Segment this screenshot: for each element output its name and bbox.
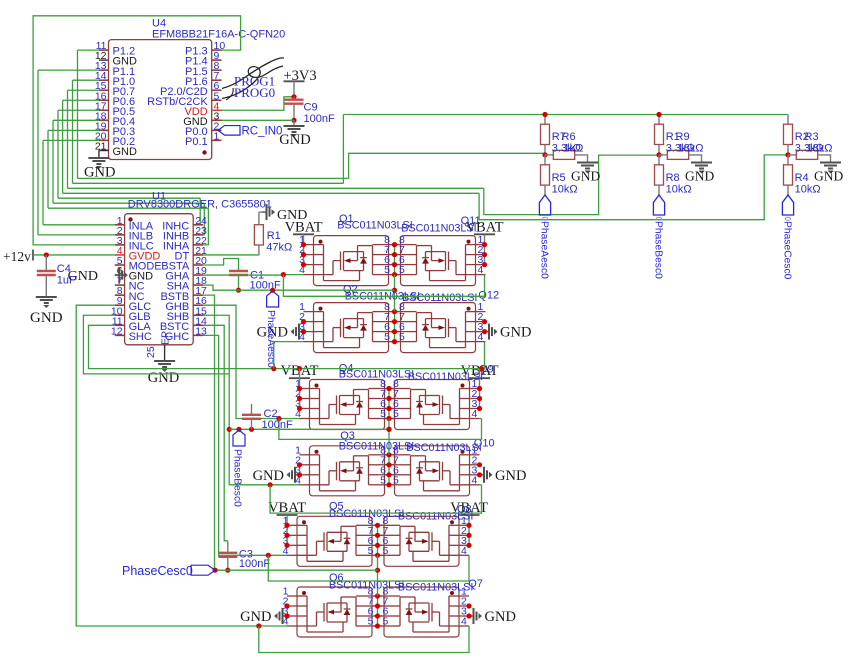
svg-text:10kΩ: 10kΩ [552,183,578,195]
svg-text:5: 5 [399,264,405,276]
svg-text:GND: GND [495,468,526,484]
svg-text:5: 5 [380,408,386,420]
svg-text:5: 5 [383,616,389,628]
svg-text:4: 4 [461,616,467,628]
svg-text:R9: R9 [676,131,690,143]
svg-text:P0.1: P0.1 [185,136,208,148]
svg-text:5: 5 [368,545,374,557]
svg-text:BSC011N03LSI: BSC011N03LSI [329,508,404,520]
svg-text:EP: EP [160,331,172,345]
svg-text:R4: R4 [795,172,809,184]
svg-text:5: 5 [399,331,405,343]
svg-text:GND: GND [279,132,310,148]
svg-text:12: 12 [111,325,123,337]
svg-text:47kΩ: 47kΩ [266,242,292,254]
svg-text:EFM8BB21F16A-C-QFN20: EFM8BB21F16A-C-QFN20 [152,29,285,41]
svg-text:4: 4 [472,474,478,486]
svg-text:10kΩ: 10kΩ [795,183,821,195]
svg-text:GND: GND [148,370,179,386]
svg-text:25: 25 [145,346,157,358]
svg-text:R5: R5 [552,172,566,184]
svg-text:GND: GND [500,325,531,341]
svg-text:C9: C9 [304,102,318,114]
svg-text:100nF: 100nF [239,558,270,570]
svg-text:1kΩ: 1kΩ [564,143,584,155]
svg-text:+12v: +12v [3,249,31,264]
svg-text:5: 5 [384,331,390,343]
svg-text:SHC: SHC [129,331,152,343]
svg-text:GND: GND [30,310,63,326]
svg-text:4: 4 [472,408,478,420]
svg-text:R1: R1 [267,230,281,242]
svg-text:5: 5 [393,408,399,420]
svg-text:R3: R3 [805,131,819,143]
svg-text:Q11: Q11 [461,215,481,227]
svg-text:PhaseAesc0: PhaseAesc0 [538,221,549,279]
svg-text:4: 4 [461,545,467,557]
svg-text:BSC011N03LSI: BSC011N03LSI [402,292,477,304]
svg-text:10kΩ: 10kΩ [666,183,692,195]
svg-text:5: 5 [393,474,399,486]
svg-text:GND: GND [113,146,138,158]
svg-text:GND: GND [240,609,271,625]
svg-text:GND: GND [685,169,714,184]
svg-text:BSC011N03LSI: BSC011N03LSI [408,371,483,383]
svg-text:R6: R6 [562,131,576,143]
svg-text:R8: R8 [666,172,680,184]
svg-text:PROG0: PROG0 [234,85,275,100]
svg-text:100nF: 100nF [262,419,293,431]
svg-text:VBAT: VBAT [285,219,323,235]
svg-text:18kΩ: 18kΩ [807,143,833,155]
svg-text:DRV8300DRGER, C3655801: DRV8300DRGER, C3655801 [128,199,272,211]
svg-text:PhaseCesc0: PhaseCesc0 [122,564,193,578]
svg-text:Q8: Q8 [457,504,472,516]
svg-text:GND: GND [571,169,600,184]
svg-text:1: 1 [214,130,220,142]
svg-text:5: 5 [368,616,374,628]
svg-text:BSC011N03LSI: BSC011N03LSI [339,368,414,380]
svg-text:PhaseBesc0: PhaseBesc0 [652,221,663,279]
svg-text:BSC011N03LSI: BSC011N03LSI [339,440,414,452]
svg-text:PhaseCesc0: PhaseCesc0 [781,221,792,280]
svg-text:Q7: Q7 [468,578,483,590]
svg-text:BSC011N03LSI: BSC011N03LSI [398,582,473,594]
svg-text:GND: GND [253,468,284,484]
svg-text:5: 5 [384,264,390,276]
svg-text:GND: GND [68,269,98,284]
svg-text:PhaseBesc0: PhaseBesc0 [231,449,242,507]
svg-text:18kΩ: 18kΩ [678,143,704,155]
svg-text:BSC011N03LSI: BSC011N03LSI [406,442,481,454]
svg-text:GND: GND [814,169,843,184]
svg-text:RC_IN0: RC_IN0 [242,125,283,137]
svg-text:GND: GND [485,609,516,625]
svg-text:5: 5 [380,474,386,486]
svg-text:100nF: 100nF [304,113,335,125]
svg-text:5: 5 [383,545,389,557]
